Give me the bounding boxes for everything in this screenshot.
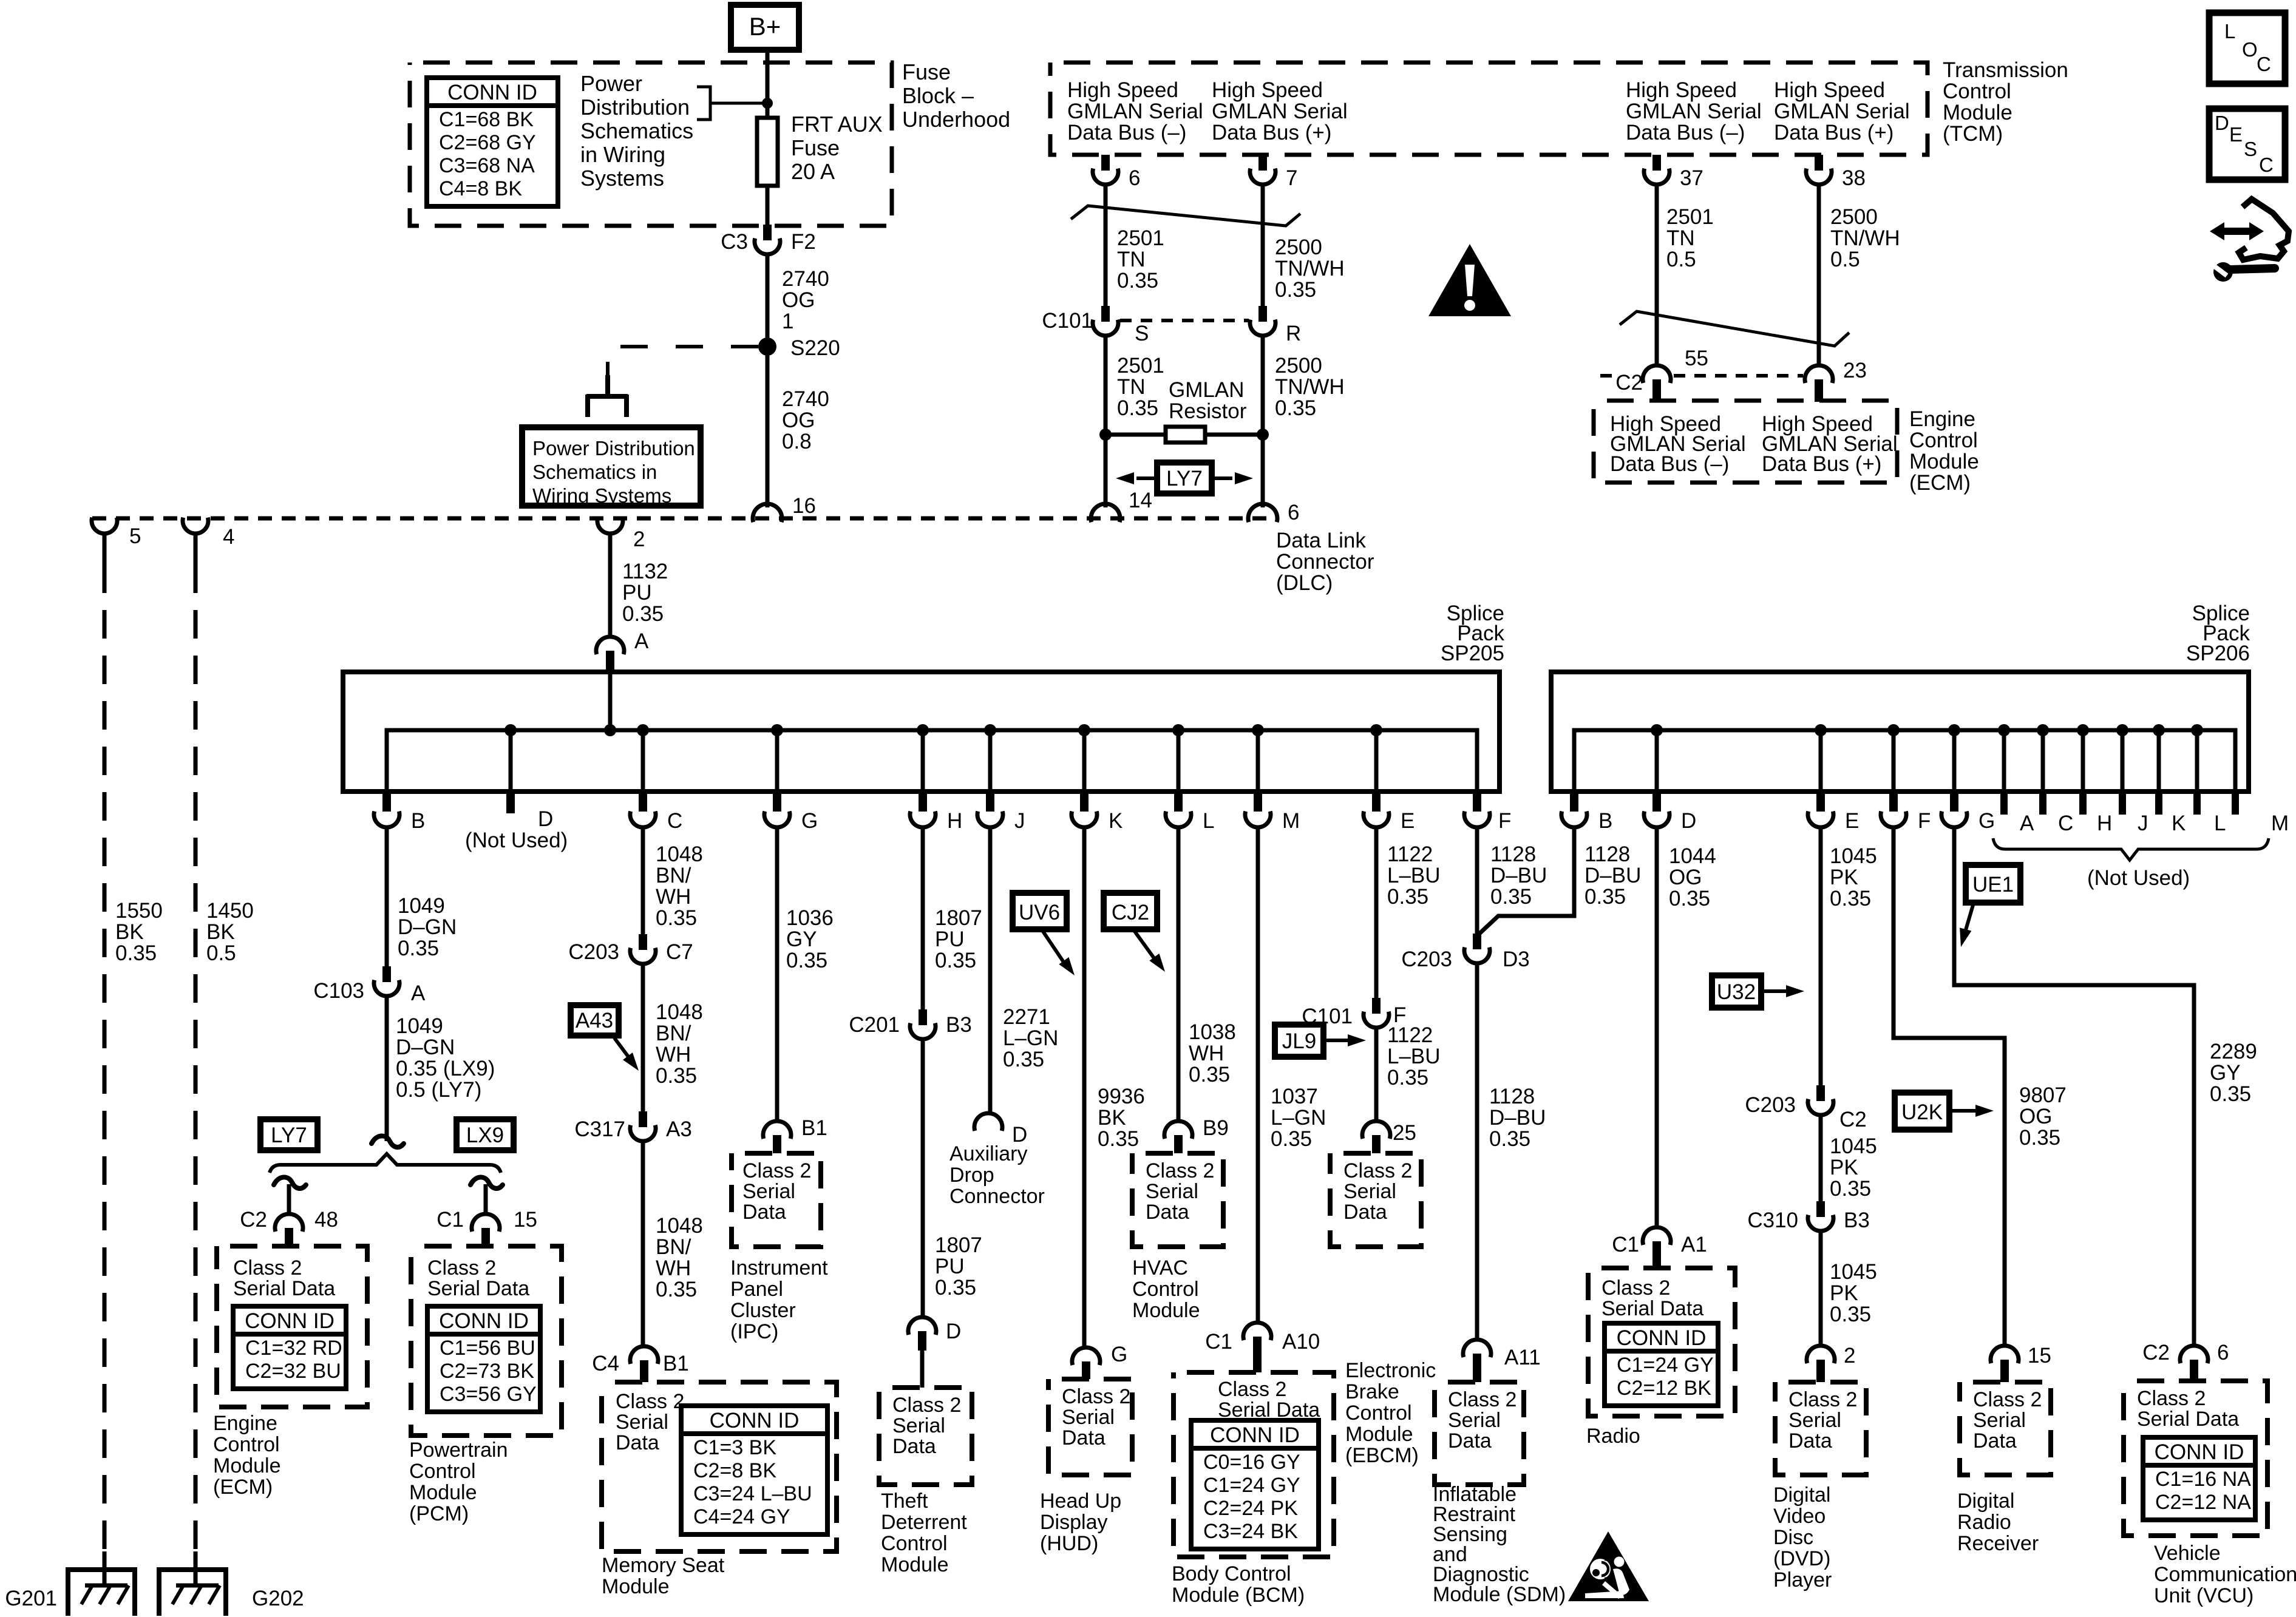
label 1128 D-BU 0.35 sdm: [1489, 1085, 1546, 1151]
label D aux: [1012, 1123, 1027, 1147]
svg-text:C101: C101: [1302, 1005, 1353, 1028]
svg-text:(TCM): (TCM): [1943, 122, 2003, 146]
svg-text:HVAC: HVAC: [1132, 1256, 1188, 1280]
module box SDM: [1435, 1382, 1524, 1485]
svg-text:Serial: Serial: [1973, 1409, 2026, 1432]
label Engine Control Module ECM top: [1909, 407, 1979, 495]
connector IPC B1: [763, 1121, 791, 1153]
label 1038 WH 0.35: [1189, 1020, 1236, 1086]
svg-text:(DVD): (DVD): [1773, 1547, 1830, 1570]
label A sp206stub: [2020, 812, 2034, 835]
svg-text:GMLAN Serial: GMLAN Serial: [1626, 100, 1762, 123]
SP206 stub K: [2157, 730, 2161, 792]
arrow CJ2: [1134, 931, 1165, 972]
svg-text:C1=68 BK: C1=68 BK: [439, 108, 534, 131]
connector C3 F2: [755, 225, 780, 254]
svg-text:G202: G202: [252, 1587, 304, 1610]
svg-text:Engine: Engine: [1909, 407, 1975, 431]
label 2501 TN 0.35 upper: [1117, 226, 1164, 293]
label High Speed GMLAN Serial Data Bus minus TCM: [1067, 78, 1203, 144]
wire C201 to theft D: [921, 1039, 925, 1318]
label 2289 GY 0.35: [2210, 1040, 2257, 1106]
connector SP205 E: [1364, 792, 1389, 827]
module box HUD: [1048, 1379, 1132, 1475]
svg-text:16: 16: [792, 494, 816, 518]
label A c103: [411, 981, 426, 1005]
label A sp205: [634, 629, 649, 653]
svg-text:25: 25: [1393, 1121, 1416, 1145]
svg-text:G: G: [1978, 809, 1995, 833]
svg-text:G: G: [1111, 1343, 1127, 1366]
SP205 bus junction E: [1370, 724, 1382, 736]
label A3: [666, 1117, 692, 1141]
svg-text:Digital: Digital: [1957, 1490, 2014, 1513]
SP205 drop J: [988, 730, 993, 792]
label 5: [129, 524, 141, 548]
DESC icon box: [2209, 109, 2285, 180]
SP206 stub H: [2081, 730, 2085, 792]
label High Speed GMLAN Serial Data Bus plus TCM: [1212, 78, 1348, 144]
SP205 drop M: [1256, 730, 1260, 792]
connector SP206 stub C: [2039, 792, 2046, 815]
svg-text:in Wiring: in Wiring: [580, 142, 665, 167]
label J sp205: [1014, 809, 1025, 833]
wire C317 to C4: [641, 1141, 645, 1346]
svg-text:4: 4: [223, 525, 234, 549]
bracket to Power Distribution note: [697, 87, 764, 120]
label 1037 L-GN 0.35: [1271, 1085, 1326, 1151]
label G sp206: [1978, 809, 1995, 833]
label 2500 TN/WH 0.35 upper: [1275, 236, 1345, 302]
label High Speed GMLAN Serial Data Bus plus TCM right: [1774, 78, 1910, 144]
svg-text:Module: Module: [602, 1575, 670, 1598]
svg-text:0.35: 0.35: [1275, 396, 1316, 420]
wire SP205 K to HUD: [1082, 827, 1087, 1348]
svg-text:(ECM): (ECM): [1909, 471, 1971, 495]
label Memory Seat Module: [602, 1554, 725, 1598]
label C101: [1302, 1005, 1353, 1028]
label C3: [721, 230, 748, 254]
svg-text:0.35: 0.35: [1490, 885, 1532, 909]
svg-text:Data Bus (+): Data Bus (+): [1212, 121, 1331, 144]
svg-text:Display: Display: [1040, 1511, 1107, 1534]
SP206 drop F: [1892, 730, 1896, 792]
svg-text:Class 2: Class 2: [1218, 1378, 1286, 1401]
SP206 bus junction G: [1948, 724, 1960, 736]
option box UV6: [1013, 893, 1067, 929]
label class 2 serial data DVD: [1788, 1388, 1857, 1453]
connector SP206 F: [1881, 792, 1906, 827]
option box LX9: [457, 1119, 514, 1150]
SP205 bus junction K: [1078, 724, 1090, 736]
connector SP206 stub A: [2000, 792, 2008, 815]
SP205 bus bar: [387, 730, 1477, 792]
label Auxiliary Drop Connector: [949, 1142, 1045, 1208]
svg-text:Drop: Drop: [949, 1164, 994, 1187]
label 6 vcu: [2217, 1341, 2229, 1364]
label Body Control Module BCM: [1172, 1562, 1305, 1607]
arrow JL9: [1323, 1034, 1366, 1046]
svg-text:5: 5: [129, 524, 141, 548]
svg-text:0.35: 0.35: [1387, 1066, 1428, 1090]
wire SP205 H to C201: [921, 827, 925, 1009]
connector SP206 stub J: [2119, 792, 2126, 815]
wire C203C2 to C310: [1819, 1115, 1823, 1201]
label 23: [1843, 359, 1867, 382]
svg-text:Power Distribution: Power Distribution: [532, 437, 695, 459]
label High Speed GMLAN Data Bus plus ECM: [1762, 412, 1898, 476]
svg-text:OG: OG: [782, 408, 815, 432]
svg-text:G: G: [801, 809, 818, 833]
svg-text:0.35: 0.35: [1387, 885, 1428, 909]
svg-text:Data Bus (–): Data Bus (–): [1610, 452, 1729, 476]
label B sp206: [1598, 809, 1612, 833]
svg-text:2740: 2740: [782, 267, 829, 291]
svg-text:0.35: 0.35: [1117, 396, 1158, 420]
label G hud: [1111, 1343, 1127, 1366]
svg-text:CONN ID: CONN ID: [710, 1409, 800, 1432]
svg-text:1036: 1036: [786, 906, 834, 930]
svg-text:1038: 1038: [1189, 1020, 1236, 1044]
connector SP206 G: [1941, 792, 1967, 827]
svg-text:PU: PU: [622, 581, 652, 605]
svg-text:C2=12 BK: C2=12 BK: [1617, 1377, 1711, 1400]
label C2 ecm: [1615, 371, 1643, 395]
label High Speed GMLAN Data Bus minus ECM: [1610, 412, 1746, 476]
wire SP206 G elbow to VCU: [1954, 827, 2194, 1346]
wire TCM 7 to C101 R: [1261, 185, 1265, 306]
module box DVD: [1775, 1382, 1866, 1475]
label 1122 L-BU 0.35 sp205E: [1387, 842, 1441, 909]
svg-text:Serial Data: Serial Data: [1601, 1297, 1703, 1320]
splice S220: [758, 337, 776, 356]
svg-text:Electronic: Electronic: [1345, 1359, 1436, 1382]
connector SP205 L: [1166, 792, 1191, 827]
svg-text:(PCM): (PCM): [409, 1502, 469, 1525]
label Inflatable Restraint SDM: [1433, 1483, 1566, 1606]
connector DLC pin 5: [92, 518, 117, 534]
label D sp205: [538, 807, 553, 831]
svg-text:L: L: [2224, 20, 2235, 42]
label Fuse Block Underhood: [902, 59, 1010, 132]
svg-text:C2: C2: [1839, 1108, 1867, 1131]
SP205 bus junction G: [771, 724, 783, 736]
svg-text:BK: BK: [1098, 1106, 1126, 1130]
svg-text:1049: 1049: [396, 1014, 443, 1038]
label HVAC Control Module: [1132, 1256, 1200, 1322]
label L sp206stub: [2214, 812, 2226, 835]
svg-text:1044: 1044: [1669, 844, 1716, 868]
connector TCM pin 38: [1806, 155, 1832, 185]
option box A43: [571, 1005, 619, 1036]
TCM dashed box: [1050, 63, 1927, 155]
svg-text:2500: 2500: [1275, 354, 1322, 378]
svg-text:2: 2: [1844, 1344, 1855, 1368]
svg-text:2: 2: [633, 527, 645, 551]
wire 1450 BK to G202: [194, 532, 198, 1551]
arrow LY7 right: [1212, 472, 1253, 484]
svg-text:2500: 2500: [1275, 236, 1322, 259]
connector BCM C1 A10: [1243, 1323, 1271, 1372]
connector C317 A3: [630, 1111, 656, 1141]
label Digital Radio Receiver: [1957, 1490, 2039, 1555]
svg-text:Data: Data: [616, 1431, 659, 1454]
connector HUD G: [1072, 1347, 1100, 1379]
label 2500 TN/WH 0.35 lower: [1275, 354, 1345, 420]
SP205 drop G: [775, 730, 779, 792]
connector C2 48: [275, 1214, 303, 1246]
svg-text:Data Bus (+): Data Bus (+): [1762, 452, 1881, 476]
svg-text:Data: Data: [1973, 1429, 2017, 1453]
label 15 pcm: [514, 1208, 537, 1232]
brace split LY7 LX9: [270, 1154, 501, 1173]
svg-text:C3=24 L–BU: C3=24 L–BU: [693, 1482, 812, 1505]
svg-text:Data Bus (–): Data Bus (–): [1067, 121, 1186, 144]
brace not used sp206: [1993, 838, 2269, 860]
svg-text:2740: 2740: [782, 387, 829, 411]
svg-text:0.35: 0.35: [1669, 887, 1710, 910]
svg-text:1048: 1048: [656, 1214, 703, 1238]
svg-text:1122: 1122: [1387, 1023, 1433, 1047]
module box PCM class2: [411, 1246, 562, 1436]
svg-text:PU: PU: [935, 927, 965, 951]
svg-text:Power: Power: [580, 71, 642, 96]
svg-text:LY7: LY7: [271, 1124, 307, 1147]
svg-text:1128: 1128: [1490, 842, 1536, 866]
label Power Distribution Schematics note: [580, 71, 693, 191]
svg-text:Data: Data: [1062, 1426, 1106, 1449]
svg-text:A: A: [634, 629, 649, 653]
svg-text:C1=56 BU: C1=56 BU: [440, 1337, 535, 1360]
label B3 c201: [946, 1013, 972, 1037]
svg-text:CONN ID: CONN ID: [245, 1309, 335, 1333]
label C1 radio: [1612, 1233, 1639, 1256]
svg-text:2271: 2271: [1003, 1005, 1050, 1029]
CONN ID table PCM: [427, 1306, 540, 1412]
svg-text:0.35: 0.35: [1189, 1063, 1230, 1086]
svg-text:0.35: 0.35: [398, 937, 439, 960]
svg-text:Module: Module: [881, 1553, 949, 1576]
warning triangle: [1428, 244, 1511, 316]
svg-text:Serial Data: Serial Data: [2137, 1408, 2239, 1431]
svg-text:TN/WH: TN/WH: [1275, 257, 1345, 280]
svg-text:C4: C4: [592, 1352, 619, 1375]
connector SP205 C: [630, 792, 656, 827]
connector DLC pin 4: [183, 518, 208, 534]
svg-text:Data Bus (–): Data Bus (–): [1626, 121, 1745, 144]
svg-text:OG: OG: [1669, 866, 1702, 889]
svg-text:Module: Module: [409, 1481, 477, 1504]
svg-text:Control: Control: [1132, 1278, 1199, 1301]
label class 2 serial data EBCM: [1343, 1159, 1412, 1224]
CONN ID table memory seat: [681, 1406, 827, 1534]
svg-text:PK: PK: [1830, 1156, 1858, 1179]
label class2 BCM: [1218, 1378, 1320, 1422]
svg-text:0.8: 0.8: [782, 430, 812, 453]
label 2740 OG 0.8: [782, 387, 829, 453]
svg-text:37: 37: [1680, 166, 1703, 190]
svg-text:1128: 1128: [1489, 1085, 1535, 1108]
SP205 bus junction M: [1252, 724, 1264, 736]
svg-text:S220: S220: [790, 336, 840, 360]
svg-text:Serial Data: Serial Data: [427, 1277, 529, 1300]
svg-text:38: 38: [1842, 166, 1866, 190]
SP205 drop L: [1177, 730, 1181, 792]
connector TCM pin 37: [1644, 155, 1669, 185]
label class2 radio: [1601, 1276, 1703, 1320]
svg-text:C2: C2: [1615, 371, 1643, 395]
label D theft: [946, 1320, 961, 1343]
label C203: [568, 940, 619, 964]
connector C101 S: [1093, 306, 1118, 336]
connector EBCM 25: [1362, 1121, 1390, 1153]
label 1128 D-BU 0.35 sp206B: [1584, 842, 1641, 909]
svg-text:Data: Data: [1448, 1429, 1492, 1453]
label C317: [574, 1117, 625, 1141]
svg-text:Class 2: Class 2: [1343, 1159, 1412, 1182]
connector SP205 G: [764, 792, 790, 827]
wire SP206 F elbow to DRR: [1894, 827, 2005, 1346]
SP205 drop D: [509, 730, 513, 792]
label J sp206stub: [2138, 812, 2148, 835]
wire F2 to S220: [766, 254, 770, 347]
svg-text:BN/: BN/: [656, 1235, 691, 1259]
svg-text:Instrument: Instrument: [730, 1256, 828, 1280]
svg-text:CONN ID: CONN ID: [1210, 1423, 1300, 1447]
svg-text:UE1: UE1: [1972, 873, 2014, 897]
svg-text:Class 2: Class 2: [892, 1394, 961, 1417]
svg-text:1037: 1037: [1271, 1085, 1318, 1108]
wire S to DLC 14: [1104, 334, 1108, 507]
label C1 bcm: [1205, 1330, 1232, 1354]
svg-text:Control: Control: [1345, 1402, 1412, 1425]
label C201: [849, 1013, 900, 1037]
SP205 drop K: [1082, 730, 1087, 792]
SP206 bus junction L: [2191, 724, 2203, 736]
svg-text:Schematics in: Schematics in: [532, 461, 657, 483]
svg-text:BN/: BN/: [656, 1022, 691, 1045]
svg-text:Digital: Digital: [1773, 1483, 1830, 1507]
svg-text:Cluster: Cluster: [730, 1299, 796, 1322]
label 1128 D-BU 0.35 sp205F: [1490, 842, 1547, 909]
svg-text:C3=56 GY: C3=56 GY: [440, 1383, 537, 1406]
svg-text:0.5: 0.5: [206, 941, 236, 965]
label C2 dvd: [1839, 1108, 1867, 1131]
svg-text:Connector: Connector: [1276, 550, 1374, 574]
connector C101 R: [1250, 306, 1275, 336]
svg-text:PK: PK: [1830, 866, 1858, 889]
svg-text:Underhood: Underhood: [902, 107, 1010, 132]
break squiggle right branch: [470, 1177, 503, 1188]
node junction at power distribution tap: [762, 98, 773, 109]
svg-text:23: 23: [1843, 359, 1867, 382]
wire S220 to DLC 16: [766, 347, 770, 504]
wire left branch: [287, 1184, 291, 1215]
svg-text:BN/: BN/: [656, 864, 691, 887]
svg-text:Serial: Serial: [1788, 1409, 1841, 1432]
svg-text:Serial: Serial: [1062, 1406, 1115, 1429]
label 1045 PK 0.35 sp206E: [1830, 844, 1877, 910]
SP206 bus junction K: [2153, 724, 2165, 736]
svg-text:Receiver: Receiver: [1957, 1532, 2039, 1555]
svg-text:2500: 2500: [1830, 205, 1878, 229]
svg-text:0.35: 0.35: [1830, 1303, 1871, 1326]
svg-text:CONN ID: CONN ID: [439, 1309, 529, 1333]
service icon hand and wrench: [2210, 199, 2289, 282]
svg-text:Data Bus (+): Data Bus (+): [1774, 121, 1894, 144]
svg-text:B1: B1: [663, 1352, 689, 1375]
SP206 bus junction E: [1815, 724, 1827, 736]
wire SP205 F to D3: [1475, 827, 1479, 935]
svg-text:Control: Control: [1943, 80, 2011, 103]
label C2 pcm: [240, 1208, 267, 1232]
svg-text:0.35: 0.35: [1098, 1127, 1139, 1151]
svg-text:Serial: Serial: [892, 1414, 945, 1437]
svg-text:M: M: [2271, 812, 2289, 835]
svg-text:0.35 (LX9): 0.35 (LX9): [396, 1057, 495, 1080]
svg-text:1045: 1045: [1830, 1260, 1877, 1284]
svg-text:L: L: [2214, 812, 2226, 835]
svg-text:1807: 1807: [935, 906, 982, 930]
svg-text:C4=24 GY: C4=24 GY: [693, 1505, 790, 1528]
svg-text:K: K: [1109, 809, 1123, 833]
module box Memory Seat class2: [602, 1382, 837, 1551]
svg-text:Vehicle: Vehicle: [2154, 1542, 2221, 1565]
label L sp205: [1203, 809, 1214, 833]
connector SP206 stub M: [2232, 792, 2239, 815]
dashed line C2 ecm: [1600, 374, 1803, 378]
svg-text:Class 2: Class 2: [2137, 1387, 2206, 1410]
label class 2 serial data IPC: [742, 1159, 811, 1224]
svg-text:C7: C7: [666, 940, 693, 964]
svg-text:Serial: Serial: [1448, 1409, 1501, 1432]
label C7: [666, 940, 693, 964]
label D3: [1503, 947, 1530, 971]
svg-text:C1=16 NA: C1=16 NA: [2155, 1468, 2251, 1491]
svg-text:0.35: 0.35: [1003, 1048, 1044, 1071]
svg-text:Engine: Engine: [213, 1412, 277, 1435]
svg-text:U32: U32: [1717, 980, 1756, 1004]
SP206 drop E: [1819, 730, 1823, 792]
dashed branch S220 to power distribution note: [608, 347, 758, 378]
connector DLC pin 6: [1248, 504, 1277, 522]
connector SP206 D: [1644, 792, 1669, 827]
svg-text:GMLAN Serial: GMLAN Serial: [1067, 100, 1203, 123]
svg-text:Transmission: Transmission: [1943, 58, 2068, 82]
svg-text:E: E: [1401, 809, 1415, 833]
connector TCM pin 6: [1093, 155, 1118, 185]
SP206 bus junction H: [2077, 724, 2089, 736]
svg-text:Distribution: Distribution: [580, 95, 690, 120]
label class2 vcu: [2137, 1387, 2239, 1431]
svg-text:C101: C101: [1042, 309, 1093, 333]
junction dot resistor left: [1099, 429, 1112, 441]
svg-text:Data: Data: [1788, 1429, 1832, 1453]
svg-text:(DLC): (DLC): [1276, 571, 1333, 595]
svg-text:High Speed: High Speed: [1774, 78, 1885, 102]
SP206 stub C: [2041, 730, 2045, 792]
svg-text:1807: 1807: [935, 1233, 982, 1257]
SP206 drop D: [1655, 730, 1659, 792]
connector DVD 2: [1807, 1346, 1835, 1382]
SP206 bus junction J: [2116, 724, 2128, 736]
svg-text:Schematics: Schematics: [580, 118, 693, 143]
label 2 dvd: [1844, 1344, 1855, 1368]
label S220: [790, 336, 840, 360]
label class 2 serial data HUD: [1062, 1385, 1130, 1449]
svg-text:0.35: 0.35: [2210, 1082, 2251, 1106]
label C203: [1745, 1093, 1796, 1117]
